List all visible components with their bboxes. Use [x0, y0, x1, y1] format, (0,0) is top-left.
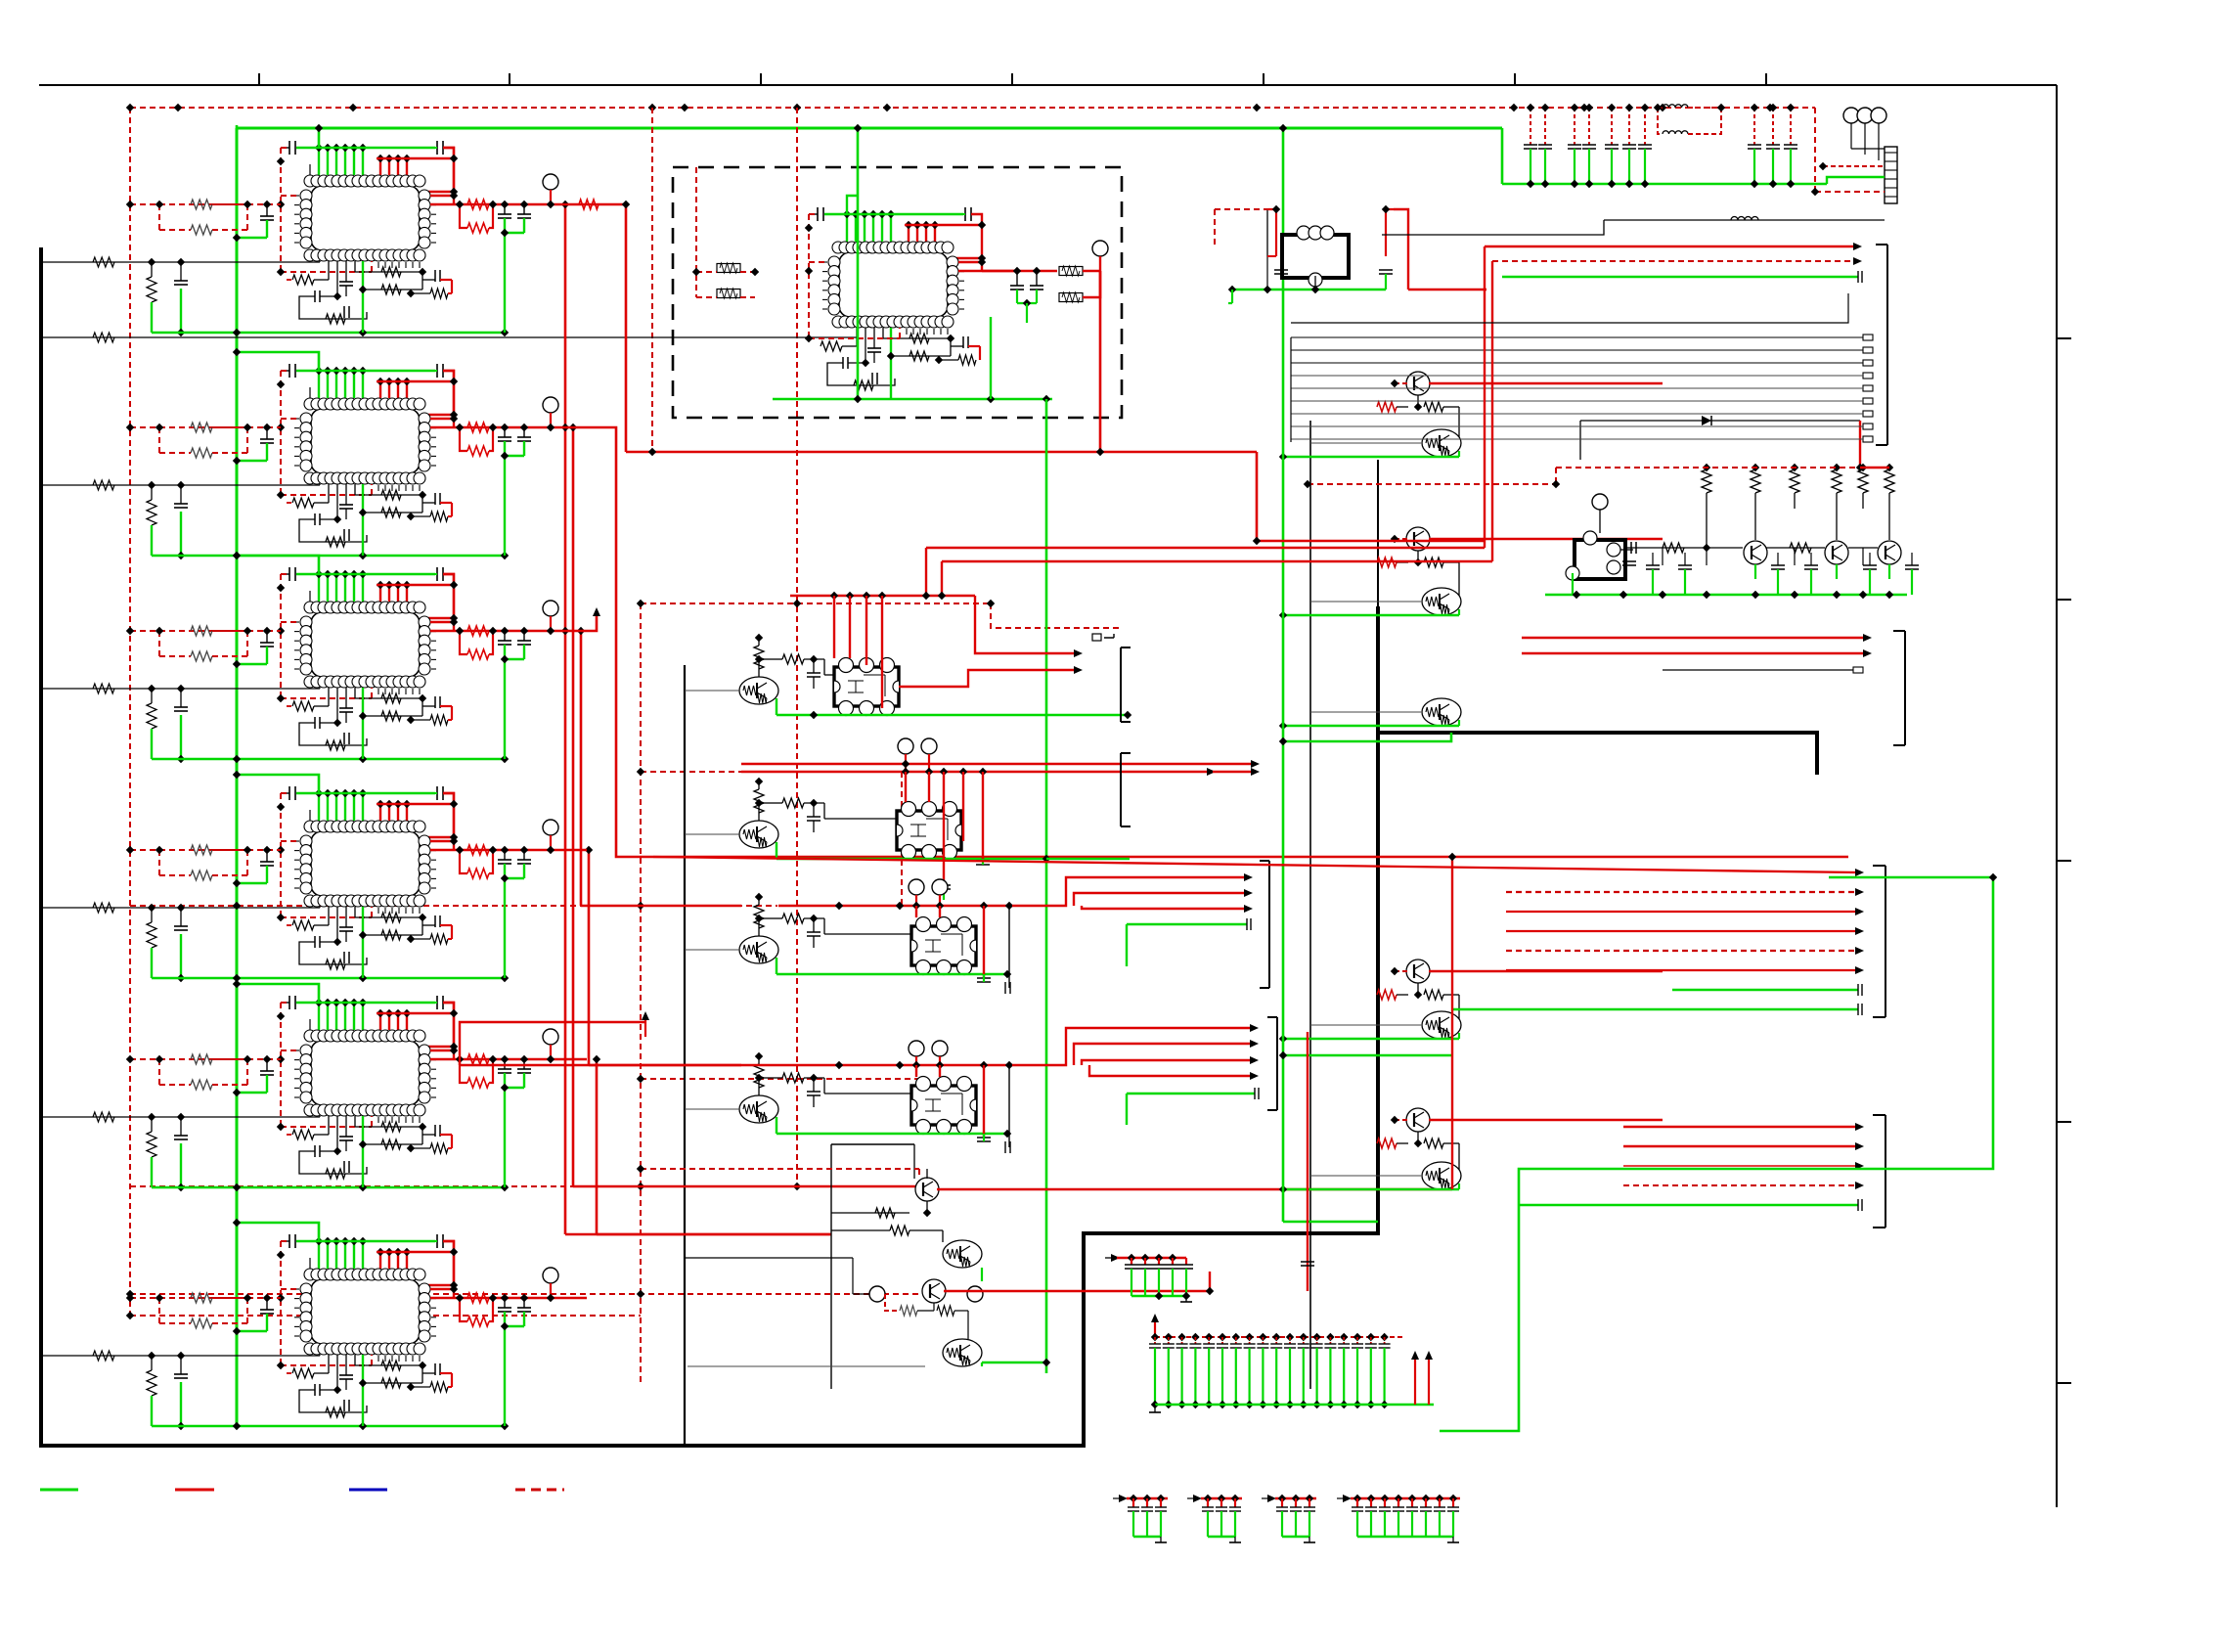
- capacitor C-left: [266, 850, 268, 862]
- black L bracket: [1291, 293, 1848, 323]
- IC U7 in dashed box: [805, 207, 1017, 399]
- red bus verticals from blocks: [587, 204, 626, 452]
- inductor pair loop: [1658, 107, 1663, 109]
- transistor Qe: [1422, 1162, 1461, 1189]
- Q3: [922, 1279, 946, 1303]
- green return: [776, 842, 777, 859]
- capacitor top-left: [288, 141, 290, 155]
- red output net: [430, 1288, 454, 1290]
- input net block 5: [41, 1116, 320, 1118]
- transistor Q driver: [739, 936, 778, 963]
- green return: [776, 1117, 777, 1134]
- IC U3 QFP block: [318, 574, 320, 602]
- long black input line second: [41, 336, 858, 338]
- green bus vertical: [236, 128, 239, 1424]
- fan 2 into bracket: [1873, 1115, 1885, 1228]
- connector bracket A: [1121, 647, 1131, 722]
- connector top right: [1843, 108, 1859, 123]
- capacitor bank B (18): [1151, 1314, 1159, 1322]
- driver IC: [911, 1086, 976, 1125]
- green bus elbow: [318, 128, 321, 148]
- green rail bottom: [152, 1186, 505, 1189]
- green return loop right: [1440, 877, 1993, 1431]
- test point TP5: [543, 1029, 558, 1045]
- Q2: [943, 1240, 982, 1268]
- RC network bottom: [328, 907, 330, 925]
- green rail bottom: [152, 977, 505, 980]
- red output net: [430, 1049, 454, 1051]
- crystal X2: [1575, 540, 1625, 579]
- long red interconnects: [926, 547, 1485, 549]
- resistor pair loop block 5: [158, 1059, 160, 1085]
- fan D red: [1012, 1028, 1255, 1065]
- dashed red horizontals: [641, 603, 991, 604]
- transistor Qe: [1422, 588, 1461, 615]
- capacitor top-left: [288, 786, 290, 800]
- input net block 1: [41, 261, 320, 263]
- dashed red net left: [281, 147, 289, 149]
- capacitor top-left: [288, 996, 290, 1009]
- dashed feeds cluster: [641, 1168, 919, 1170]
- Q4: [943, 1339, 982, 1366]
- capacitor top-right: [436, 786, 438, 800]
- red net y462: [626, 451, 652, 454]
- red arrow feeds: [1485, 246, 1858, 247]
- connector J mid: [1893, 631, 1905, 745]
- transistor amp: [1825, 541, 1848, 564]
- transistor Qc: [1406, 372, 1430, 395]
- test point TP2: [543, 397, 558, 413]
- test point TP6: [543, 1268, 558, 1283]
- IC U5 QFP block: [318, 1003, 320, 1030]
- thick border left/bottom: [39, 247, 43, 1448]
- red output net: [430, 840, 454, 842]
- RC network bottom: [328, 1116, 330, 1135]
- capacitor top-right: [436, 141, 438, 155]
- IC U2 QFP block: [318, 371, 320, 398]
- dashed red verticals middle: [640, 603, 642, 1384]
- transistor Qc: [1406, 960, 1430, 983]
- transistor Qe: [1422, 698, 1461, 726]
- connector bracket B: [1121, 753, 1131, 826]
- dashed red net left: [281, 1240, 289, 1242]
- resistor pair loop block 3: [158, 631, 160, 656]
- transistor Qe: [1422, 429, 1461, 457]
- input net block 6: [41, 1355, 320, 1357]
- transistor Q driver: [739, 1095, 778, 1123]
- RC network bottom: [328, 261, 330, 280]
- red input to osc: [1486, 290, 1487, 548]
- green bus top: [236, 125, 239, 128]
- resistor pair loop block 2: [158, 427, 160, 453]
- test point TP1: [543, 174, 558, 190]
- green to connector: [1827, 177, 1885, 184]
- capacitor bank rows bottom: [1113, 1497, 1125, 1499]
- green rail osc: [1545, 594, 1907, 597]
- legend: [40, 1489, 78, 1492]
- connector bracket D: [1267, 1017, 1277, 1110]
- transistor Q driver: [739, 821, 778, 848]
- RC network bottom: [328, 1355, 330, 1373]
- input net block 2: [41, 484, 320, 486]
- red verticals to cluster: [1307, 1032, 1309, 1242]
- resistor pair loop block 6: [158, 1298, 160, 1323]
- green bus elbow: [237, 352, 319, 371]
- dashed red net left: [281, 370, 289, 372]
- capacitor top-left: [288, 364, 290, 378]
- black bus vertical: [684, 665, 686, 1446]
- red collector wires: [937, 1188, 1452, 1191]
- driver IC: [911, 926, 976, 965]
- resistor pair loop block 1: [158, 204, 160, 230]
- fan C red: [1012, 877, 1247, 906]
- transistor amp: [1744, 541, 1767, 564]
- capacitor C-left: [266, 1059, 268, 1071]
- red feeds from fan D left: [1451, 857, 1453, 1189]
- dashed red net left: [281, 1002, 289, 1004]
- green return: [776, 958, 777, 974]
- green rail bottom: [152, 758, 505, 761]
- test point TP4: [543, 820, 558, 835]
- green rail bottom: [152, 332, 505, 335]
- IC U1 QFP block: [318, 148, 320, 175]
- capacitor top-right: [436, 1234, 438, 1248]
- red output net: [430, 418, 454, 420]
- driver IC: [834, 667, 899, 706]
- filter resistors left of U7: [717, 264, 740, 273]
- capacitor top-right: [436, 364, 438, 378]
- RC network bottom: [328, 484, 330, 503]
- red output net: [430, 195, 454, 197]
- feeds fan2: [1452, 1127, 1623, 1189]
- capacitor C-left: [266, 631, 268, 643]
- border frame: [39, 84, 2057, 86]
- bias resistors: [1702, 469, 1711, 493]
- green rail bottom: [152, 555, 505, 558]
- green rail bottom: [152, 1425, 505, 1428]
- capacitor C-left: [266, 204, 268, 216]
- transistor Q driver: [739, 677, 778, 704]
- connector bracket C: [1260, 861, 1269, 988]
- green bus elbow: [237, 775, 319, 793]
- input net block 3: [41, 688, 320, 690]
- driver IC: [897, 811, 961, 850]
- capacitor top-right: [436, 996, 438, 1009]
- dashed red net left: [281, 792, 289, 794]
- capacitor C-left: [266, 1298, 268, 1310]
- green net U7: [857, 128, 860, 399]
- green branches right of bus1312: [1282, 128, 1285, 1222]
- transistor Qc: [1406, 1108, 1430, 1132]
- input net block 4: [41, 907, 320, 909]
- transistor cluster bottom middle: [830, 1144, 832, 1389]
- dashed red net left: [281, 573, 289, 575]
- green return: [776, 698, 777, 715]
- resistor pair loop block 4: [158, 850, 160, 875]
- transistor Qe: [1422, 1011, 1461, 1039]
- transistor Qc: [1406, 527, 1430, 551]
- capacitor bank A: [1105, 1257, 1117, 1259]
- capacitor top-left: [288, 1234, 290, 1248]
- dashed function box: [673, 167, 1122, 418]
- IC U4 QFP block: [318, 793, 320, 821]
- green bus elbow: [237, 1223, 319, 1241]
- capacitor top-right: [436, 567, 438, 581]
- Q1: [915, 1178, 939, 1201]
- black thin vertical base bus right: [1309, 421, 1311, 1389]
- connector terminals right mid: [1876, 245, 1887, 445]
- top right capacitor rows: [1501, 128, 1504, 184]
- black line to connector w coil: [1604, 219, 1885, 221]
- crystal X1: [1282, 235, 1349, 278]
- dashed red bus top: [130, 107, 1815, 109]
- red long verticals: [587, 427, 653, 857]
- red from crystal: [1394, 209, 1408, 290]
- red output net: [430, 621, 454, 623]
- dashed red bus vertical left: [129, 108, 131, 1316]
- diode D1: [1580, 420, 1860, 422]
- transistor amp: [1878, 541, 1901, 564]
- green bus elbow: [237, 984, 319, 1003]
- output filter right of U7: [982, 270, 1057, 273]
- IC U6 QFP block: [318, 1241, 320, 1269]
- capacitor C-left: [266, 427, 268, 439]
- fan 1 into bracket: [1873, 866, 1885, 1017]
- capacitor top-left: [288, 567, 290, 581]
- RC network bottom: [328, 688, 330, 706]
- green bus elbow: [237, 556, 319, 574]
- test point TP3: [543, 601, 558, 616]
